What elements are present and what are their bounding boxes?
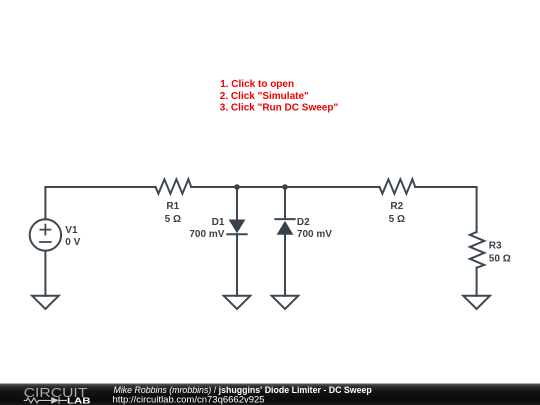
svg-text:1. Click to open: 1. Click to open [220, 79, 294, 90]
diode D2 triangle [277, 221, 294, 235]
ground D2 [272, 296, 299, 309]
logo squiggle resistor+diode [24, 397, 67, 404]
wire rail R2 to right corner and down [415, 187, 476, 232]
svg-text:R3: R3 [489, 241, 502, 252]
svg-text:700 mV: 700 mV [297, 229, 332, 240]
ground R3 [463, 296, 490, 309]
svg-text:5 Ω: 5 Ω [389, 214, 405, 225]
resistor R1 [156, 179, 192, 193]
svg-text:700 mV: 700 mV [189, 229, 224, 240]
diode D1 triangle [229, 220, 246, 234]
svg-text:50 Ω: 50 Ω [489, 254, 511, 265]
resistor R3 [470, 232, 484, 268]
svg-text:Mike Robbins (mrobbins) / jshu: Mike Robbins (mrobbins) / jshuggins' Dio… [114, 385, 373, 395]
svg-text:5 Ω: 5 Ω [165, 214, 181, 225]
node B dot [282, 184, 288, 190]
node A dot [234, 184, 240, 190]
wire R3 to ground [476, 268, 478, 296]
component labels [65, 201, 510, 265]
ground D1 [224, 296, 251, 309]
svg-text:2. Click "Simulate": 2. Click "Simulate" [220, 91, 309, 102]
svg-text:R1: R1 [166, 201, 179, 212]
resistor R2 [380, 179, 416, 193]
svg-text:http://circuitlab.com/cn73q666: http://circuitlab.com/cn73q6662v925 [113, 395, 265, 405]
voltage source V1 [30, 219, 61, 250]
wire D1 to ground [236, 234, 238, 296]
svg-text:R2: R2 [390, 201, 403, 212]
svg-text:LAB: LAB [67, 396, 91, 405]
wire rail R1 to R2 [191, 186, 379, 188]
svg-text:D2: D2 [297, 217, 310, 228]
wire top rail left segment [45, 187, 155, 219]
svg-text:V1: V1 [65, 225, 78, 236]
wire node to D2 [284, 187, 286, 219]
diode D1 cathode bar [227, 233, 246, 235]
wire V1 bottom to ground [44, 251, 46, 296]
annotation red text [220, 79, 339, 113]
svg-text:D1: D1 [212, 217, 225, 228]
svg-text:3. Click "Run DC Sweep": 3. Click "Run DC Sweep" [220, 103, 339, 114]
wire node to D1 [236, 187, 238, 220]
ground V1 [32, 296, 59, 309]
footer bar [0, 384, 540, 405]
wire D2 to ground [284, 235, 286, 296]
svg-text:0 V: 0 V [65, 237, 80, 248]
diode D2 cathode bar [275, 218, 294, 220]
